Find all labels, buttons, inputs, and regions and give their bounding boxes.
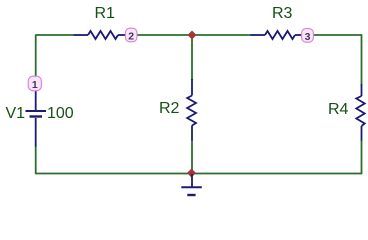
- svg-text:2: 2: [128, 30, 134, 42]
- svg-text:3: 3: [305, 31, 311, 43]
- svg-text:R2: R2: [159, 100, 180, 117]
- node 3: [302, 29, 314, 43]
- node 2: [125, 28, 137, 42]
- junction top: [188, 31, 197, 40]
- wire: [35, 34, 37, 77]
- resistor R3: [251, 31, 303, 39]
- wire: [191, 35, 193, 80]
- svg-text:R4: R4: [328, 101, 349, 118]
- wire: [361, 34, 363, 85]
- svg-text:R3: R3: [272, 5, 293, 22]
- wire: [136, 34, 192, 36]
- resistor R1: [74, 31, 127, 39]
- resistor R4: [356, 84, 364, 141]
- wire: [191, 140, 193, 174]
- wire: [36, 34, 74, 36]
- ground: [181, 174, 202, 195]
- svg-text:R1: R1: [95, 5, 116, 22]
- svg-text:1: 1: [32, 79, 38, 91]
- battery V1: [26, 90, 47, 147]
- junction bottom: [187, 169, 196, 178]
- wire: [313, 34, 362, 36]
- wire: [35, 173, 192, 175]
- svg-text:100: 100: [47, 105, 74, 122]
- wire: [35, 146, 37, 174]
- wire: [192, 173, 362, 175]
- wire: [361, 140, 363, 174]
- node 1: [28, 76, 41, 91]
- wire: [192, 34, 251, 36]
- resistor R2: [187, 79, 196, 141]
- svg-text:V1: V1: [6, 105, 26, 122]
